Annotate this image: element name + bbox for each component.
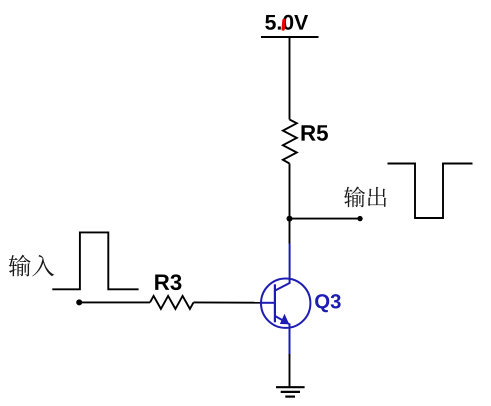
node input terminal [76, 299, 82, 305]
transistor Q3 [261, 244, 310, 355]
input waveform [52, 232, 138, 289]
resistor R3 [150, 296, 194, 309]
node output terminal [357, 216, 362, 221]
label R5 [301, 125, 327, 141]
wire output [290, 218, 361, 220]
label output 输出 [344, 186, 386, 207]
power label 5.0V [265, 15, 308, 30]
power rail bar [261, 36, 319, 38]
wire VCC to R5 [289, 37, 291, 120]
wire emitter to ground [289, 353, 291, 387]
ground [276, 387, 305, 396]
label Q3 [315, 294, 341, 312]
wire R3 to base [194, 301, 262, 303]
wire input to R3 [79, 301, 150, 303]
resistor R5 [283, 120, 297, 164]
wire R5 to collector node [289, 164, 291, 244]
node collector junction [287, 216, 293, 222]
output waveform [388, 164, 473, 219]
label R3 [155, 274, 181, 290]
label input 输入 [9, 255, 55, 277]
red annotation mark [282, 20, 286, 29]
